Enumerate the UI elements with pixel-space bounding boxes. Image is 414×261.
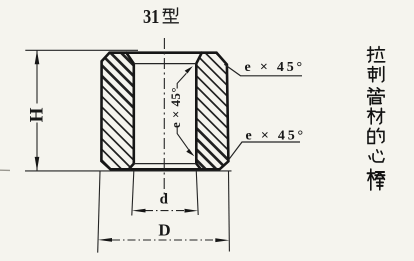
svg-text:31: 31 [143,5,159,27]
svg-text:e × 45°: e × 45° [245,60,305,75]
svg-text:e × 45°: e × 45° [246,129,306,144]
svg-text:e × 45°: e × 45° [168,87,183,128]
svg-text:H: H [27,107,48,122]
svg-text:D: D [158,220,170,239]
svg-text:d: d [160,192,169,208]
